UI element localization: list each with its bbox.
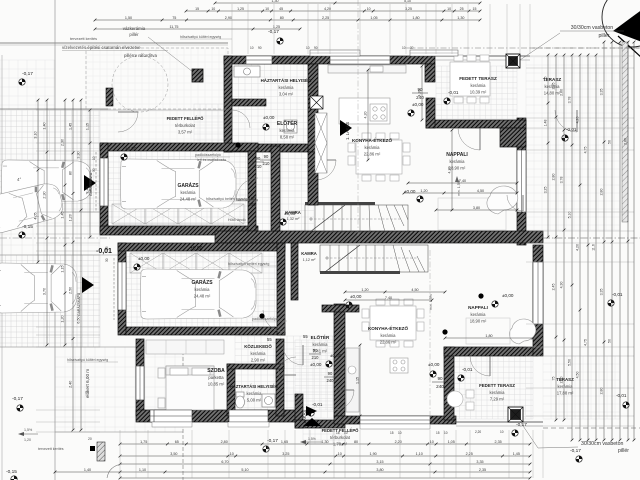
wall living A east: [517, 118, 526, 245]
garden vertical dashed: [182, 345, 184, 480]
door size 90/240 A: [412, 87, 428, 100]
svg-text:GARÁZSKAPU: GARÁZSKAPU: [77, 292, 81, 316]
survey point top: [277, 38, 283, 44]
dim terrace B width: [444, 334, 535, 340]
svg-text:FEDETT TERASZ: FEDETT TERASZ: [459, 76, 497, 81]
svg-text:25: 25: [460, 7, 464, 11]
room label terrace A: [543, 77, 562, 96]
svg-text:-0,17: -0,17: [267, 438, 278, 444]
room label garage A: [177, 182, 199, 202]
svg-text:-0,17: -0,17: [12, 396, 23, 402]
svg-text:55: 55: [267, 337, 272, 342]
svg-text:1,80: 1,80: [412, 16, 419, 20]
dim chain right col2: [552, 54, 558, 422]
survey point left mid: [19, 232, 25, 238]
svg-text:kerámia: kerámia: [471, 312, 487, 317]
svg-text:kerámia: kerámia: [181, 190, 197, 195]
svg-text:4,50: 4,50: [411, 288, 418, 292]
wall utility B north: [227, 364, 284, 369]
svg-text:15: 15: [390, 431, 394, 435]
svg-text:8,58 m²: 8,58 m²: [280, 135, 295, 140]
svg-text:GARÁZSKAPU: GARÁZSKAPU: [89, 172, 93, 196]
door size 90/210 entry A: [252, 156, 264, 169]
svg-text:90: 90: [264, 154, 269, 159]
svg-text:1,05: 1,05: [448, 440, 455, 444]
room label living A: [446, 152, 468, 171]
svg-text:10: 10: [265, 7, 269, 11]
dim chain top row4: [94, 25, 302, 31]
room label covered step A: [167, 116, 205, 135]
svg-text:3,35: 3,35: [600, 89, 604, 96]
driveway curve bottom: [107, 464, 122, 478]
dim chain left col4: [69, 99, 75, 432]
svg-text:3,80: 3,80: [473, 206, 480, 210]
dim chain left col6: [86, 109, 92, 239]
party wall: [215, 231, 543, 243]
svg-text:2,80: 2,80: [552, 174, 556, 181]
svg-text:KÖZLEKEDŐ: KÖZLEKEDŐ: [244, 344, 272, 349]
svg-text:±0,00: ±0,00: [502, 293, 514, 298]
svg-text:3,57 m²: 3,57 m²: [178, 130, 193, 135]
svg-text:1,20: 1,20: [361, 288, 368, 292]
stairs unit B: [320, 245, 428, 274]
dim chain right col9: [608, 41, 614, 442]
room label corridor B: [244, 344, 272, 363]
garage door plane B: [113, 258, 115, 320]
svg-text:4,50: 4,50: [576, 372, 580, 379]
axis vertical kitchen A: [357, 0, 359, 237]
window sill A1: [310, 50, 360, 56]
dim chain right col11: [624, 41, 630, 442]
room label bedroom B: [207, 368, 225, 387]
svg-text:±0,00: ±0,00: [284, 211, 296, 216]
svg-text:előkert 6,00 m: előkert 6,00 m: [85, 369, 90, 398]
svg-text:10: 10: [211, 7, 215, 11]
svg-text:NAPPALI: NAPPALI: [446, 152, 468, 158]
window bedroom west: [136, 366, 144, 400]
survey point terrace A2: [444, 98, 450, 104]
svg-text:1,30: 1,30: [272, 0, 279, 3]
garage A entry arrow: [84, 175, 96, 191]
stove island A: [339, 98, 390, 124]
note hoszivattyu beltari A: [206, 197, 258, 201]
svg-text:ELŐTÉR: ELŐTÉR: [277, 119, 298, 127]
svg-text:HÁZTARTÁSI HELYISÉG: HÁZTARTÁSI HELYISÉG: [230, 384, 278, 389]
site line left edge: [1, 55, 3, 480]
svg-text:90: 90: [314, 46, 318, 50]
svg-text:2,25: 2,25: [322, 16, 329, 20]
extension lines bottom: [120, 430, 543, 478]
svg-text:75: 75: [172, 16, 176, 20]
svg-text:45: 45: [279, 7, 283, 11]
note padloosszefolyo B: [252, 317, 287, 321]
entry B step arrow: [303, 406, 321, 426]
survey point mid right: [492, 301, 498, 307]
svg-text:2,25: 2,25: [466, 452, 473, 456]
survey point bottom right: [512, 430, 518, 436]
svg-text:3,25: 3,25: [282, 452, 289, 456]
svg-text:KAMRA: KAMRA: [301, 251, 317, 256]
door niche living A: [507, 195, 523, 211]
garage B entry arrow: [82, 277, 94, 293]
svg-text:30: 30: [105, 258, 109, 262]
svg-text:75: 75: [552, 377, 556, 381]
pavement edge to building: [100, 109, 228, 111]
svg-text:15: 15: [105, 246, 109, 250]
dining table B: [362, 299, 424, 347]
axis vertical living B: [429, 250, 431, 420]
svg-text:2,80: 2,80: [560, 377, 564, 384]
black dot garage B: [259, 313, 264, 318]
svg-text:10: 10: [402, 46, 406, 50]
wardrobe bedroom: [146, 340, 224, 354]
dim kitchen B width: [344, 296, 434, 302]
svg-text:90: 90: [258, 46, 262, 50]
svg-text:15: 15: [336, 431, 340, 435]
svg-text:4°: 4°: [17, 177, 22, 182]
wall entry B west: [295, 394, 303, 428]
window sill S2: [228, 422, 269, 427]
door living B to terrace: [470, 356, 490, 376]
svg-text:±0,00: ±0,00: [263, 115, 275, 120]
svg-text:22,86 m²: 22,86 m²: [364, 152, 381, 157]
svg-text:hőszivattyú kültéri egység: hőszivattyú kültéri egység: [67, 358, 108, 362]
svg-text:padlóösszefolyó: padlóösszefolyó: [195, 153, 221, 157]
svg-text:-0,17: -0,17: [570, 448, 581, 454]
survey point garage B: [134, 264, 140, 270]
pantry label B: [301, 251, 317, 262]
svg-text:2,90 m²: 2,90 m²: [251, 358, 266, 363]
svg-text:4,20: 4,20: [364, 112, 368, 119]
svg-text:3,40: 3,40: [86, 186, 90, 193]
note hoszivattyu kulteri B: [67, 358, 118, 362]
dim kitchen A height2: [364, 69, 370, 162]
garage A vehicle door opening: [100, 158, 108, 206]
door carport: [118, 112, 138, 132]
svg-text:térburkolat: térburkolat: [330, 435, 351, 440]
dim chain top row3: [94, 16, 482, 22]
svg-text:10: 10: [398, 431, 402, 435]
garage door plane A: [95, 152, 97, 212]
axis line top terrace: [406, 47, 640, 49]
svg-text:10: 10: [250, 46, 254, 50]
svg-text:-0,15: -0,15: [22, 224, 33, 230]
svg-text:kerámia: kerámia: [558, 384, 574, 389]
terrace east edge wall: [622, 42, 628, 222]
door foyer A to kitchen: [316, 160, 336, 180]
svg-text:1,90: 1,90: [370, 452, 377, 456]
door terrace A side: [555, 110, 577, 132]
door size 90/240 living B: [324, 371, 336, 383]
terrace B tiles: [543, 356, 620, 419]
svg-text:vízelvezetés építési csatornán: vízelvezetés építési csatornán elvezetve: [62, 45, 141, 50]
door foyer B to kitchen: [334, 390, 354, 410]
svg-text:ELŐTÉR: ELŐTÉR: [311, 333, 330, 340]
svg-text:1,40: 1,40: [43, 122, 47, 129]
svg-text:90: 90: [437, 376, 443, 381]
note vazkeramia piller: [123, 26, 193, 72]
utility A washer: [284, 120, 297, 133]
svg-text:1,20: 1,20: [69, 214, 73, 221]
wall bedroom west: [136, 339, 144, 416]
svg-text:80: 80: [354, 440, 358, 444]
note hoszivattyu beltari B: [228, 262, 280, 266]
svg-text:90: 90: [328, 371, 333, 376]
survey point living B east: [608, 300, 614, 306]
tiny dims below south wall: [336, 430, 504, 435]
dim chain right col7: [592, 54, 598, 442]
fence line top: [0, 43, 228, 45]
dim chain right col1: [544, 54, 550, 239]
svg-text:1,5%: 1,5%: [308, 437, 316, 441]
pillar vazkeramia: [192, 69, 203, 82]
svg-text:2,80: 2,80: [624, 138, 628, 145]
black dot B: [442, 329, 447, 334]
svg-text:30: 30: [92, 168, 96, 172]
terrace A north dashed cont: [530, 47, 640, 49]
terrace B south dashed edge: [543, 427, 640, 429]
svg-text:kerámia: kerámia: [490, 390, 506, 395]
wall terrace B north: [444, 347, 538, 356]
svg-text:1,45: 1,45: [513, 452, 520, 456]
svg-text:55: 55: [303, 334, 308, 339]
garage B vehicle door opening: [118, 262, 126, 310]
wall garage A west: [100, 143, 108, 234]
svg-text:1,12 m²: 1,12 m²: [303, 258, 317, 262]
svg-text:kerámia: kerámia: [471, 83, 487, 88]
svg-text:5,10: 5,10: [404, 0, 411, 3]
dim chain right col10: [619, 41, 622, 442]
dim kitchen B height: [356, 344, 362, 418]
svg-text:NAPPALI: NAPPALI: [468, 305, 488, 310]
wall foyer A west: [271, 146, 280, 231]
svg-text:5,10: 5,10: [241, 468, 248, 472]
room label terrace B: [556, 377, 574, 396]
svg-text:3,35: 3,35: [476, 460, 483, 464]
carport dashed circle: [112, 56, 168, 112]
svg-text:±0,00: ±0,00: [330, 353, 342, 358]
wall kitchen B west: [334, 304, 345, 416]
terrace A tiles: [526, 57, 620, 230]
svg-text:pillér: pillér: [129, 32, 139, 37]
svg-text:2,35: 2,35: [479, 468, 486, 472]
svg-text:kerámia: kerámia: [247, 391, 263, 396]
wall utility B east: [276, 339, 284, 416]
dim chain bottom row2: [119, 452, 532, 458]
wall garage B east: [277, 243, 285, 335]
wall utility B west: [227, 364, 235, 416]
svg-text:±0,00: ±0,00: [125, 146, 137, 151]
dim chain right col3: [560, 54, 566, 422]
svg-text:lejt és csatlakozás: lejt és csatlakozás: [197, 158, 226, 162]
entry A step arrow: [340, 120, 352, 136]
svg-text:65: 65: [175, 440, 179, 444]
svg-text:kerámia: kerámia: [280, 128, 296, 133]
svg-text:2,80: 2,80: [600, 189, 604, 196]
svg-text:kerámia: kerámia: [279, 85, 295, 90]
svg-text:1,05: 1,05: [370, 16, 377, 20]
svg-text:HÁZTARTÁSI HELYISÉG: HÁZTARTÁSI HELYISÉG: [261, 78, 312, 83]
svg-text:80: 80: [69, 171, 73, 175]
svg-text:17,88 m²: 17,88 m²: [557, 391, 574, 396]
svg-text:7,29 m²: 7,29 m²: [490, 397, 505, 402]
slope label left: [18, 428, 38, 436]
svg-text:1,50: 1,50: [125, 16, 132, 20]
corridor/utility B floor tiles: [235, 336, 335, 410]
svg-text:30/30cm vasbeton: 30/30cm vasbeton: [581, 441, 624, 447]
terrace B south edge: [456, 422, 543, 426]
chimney: [310, 96, 323, 109]
svg-text:1,30: 1,30: [457, 16, 464, 20]
svg-text:2,50: 2,50: [69, 287, 73, 294]
covered step B tiles: [303, 422, 345, 444]
svg-text:2,35: 2,35: [495, 440, 502, 444]
svg-text:1,30: 1,30: [321, 440, 328, 444]
svg-text:10: 10: [430, 440, 434, 444]
north symbol: [596, 0, 640, 58]
svg-text:11,75: 11,75: [170, 25, 179, 29]
room label foyer A: [277, 119, 298, 140]
dim chain right col8: [600, 41, 606, 442]
room label garage B: [191, 279, 213, 299]
dim living A width2: [403, 189, 519, 195]
svg-text:parketta: parketta: [208, 375, 224, 380]
svg-text:1,15: 1,15: [356, 377, 360, 384]
stove B: [390, 358, 408, 373]
svg-text:210: 210: [255, 164, 263, 169]
dim chain right col12: [633, 41, 636, 442]
svg-text:-0,01: -0,01: [448, 90, 459, 95]
window kitchen A north: [330, 56, 390, 64]
svg-text:±0,00: ±0,00: [138, 256, 150, 261]
svg-text:1,20: 1,20: [61, 315, 65, 322]
door garage B to corridor: [263, 310, 285, 332]
dim chain right col5: [576, 54, 582, 442]
svg-text:15: 15: [473, 7, 477, 11]
door bedroom B: [278, 357, 296, 375]
svg-text:1,15: 1,15: [86, 123, 90, 130]
room label utility B: [230, 384, 278, 403]
svg-text:tervezett kerítés: tervezett kerítés: [70, 37, 97, 41]
svg-text:15: 15: [436, 431, 440, 435]
svg-text:-0,01: -0,01: [566, 127, 577, 132]
survey point terrace B: [458, 375, 464, 381]
door size corridor B: [309, 348, 321, 360]
wall garage B south: [126, 327, 285, 335]
svg-text:90: 90: [417, 87, 423, 92]
wall stair B west: [291, 243, 298, 300]
svg-text:3,15: 3,15: [376, 460, 383, 464]
svg-text:1,45: 1,45: [61, 211, 65, 218]
survey point terrace B entry: [430, 371, 436, 377]
terrace chair B: [447, 390, 474, 410]
svg-text:hőszivattyú beltéri egység: hőszivattyú beltéri egység: [228, 262, 269, 266]
survey point bottom-left: [17, 405, 23, 411]
black dot A: [235, 142, 240, 147]
junction dot bottom-left: [90, 446, 95, 451]
extension lines right: [526, 56, 634, 426]
pavement lower-left driveway: [0, 255, 100, 347]
survey point bottom: [263, 446, 269, 452]
note vasbeton piller bottom: [517, 417, 629, 454]
pavement lower-left yard: [55, 347, 183, 432]
svg-text:5,00 m²: 5,00 m²: [247, 398, 262, 403]
wall living B east: [533, 245, 543, 356]
wall garage B west: [118, 243, 126, 335]
svg-text:10: 10: [500, 430, 504, 434]
svg-text:10: 10: [344, 431, 348, 435]
svg-text:50: 50: [608, 339, 612, 343]
wall garage A south: [100, 226, 258, 235]
svg-text:50: 50: [608, 140, 612, 144]
svg-text:10: 10: [230, 452, 234, 456]
wall stub terrace A: [426, 98, 435, 128]
svg-text:80: 80: [280, 16, 284, 20]
svg-text:-0,15: -0,15: [6, 469, 17, 475]
wall garage A north: [100, 143, 258, 151]
window sill A2: [410, 50, 458, 56]
pavement upper-left driveway: [0, 110, 100, 212]
svg-text:3,78: 3,78: [568, 97, 572, 104]
svg-text:240: 240: [249, 202, 257, 207]
wall garage B north: [118, 243, 285, 251]
wall south west-part: [136, 410, 296, 422]
wall stub foyer B: [322, 305, 359, 312]
svg-text:GARÁZS: GARÁZS: [177, 182, 199, 189]
svg-text:10,39 m²: 10,39 m²: [470, 90, 487, 95]
utility B washer: [262, 394, 275, 407]
car in garage B: [141, 269, 257, 319]
svg-text:3,04 m²: 3,04 m²: [279, 92, 294, 97]
svg-text:30/30cm vasbeton: 30/30cm vasbeton: [571, 25, 614, 31]
tiny dims left of west wall: [92, 156, 109, 262]
svg-text:5,50: 5,50: [568, 359, 572, 366]
dim chain bottom row1: [119, 440, 532, 446]
svg-text:18,90 m²: 18,90 m²: [470, 319, 487, 324]
svg-text:3,70: 3,70: [43, 288, 47, 295]
window utility A north: [246, 56, 272, 64]
svg-text:1,20: 1,20: [24, 438, 31, 442]
storage boxes garage A: [112, 204, 244, 224]
svg-text:1,25: 1,25: [237, 7, 244, 11]
svg-text:3,50: 3,50: [170, 452, 177, 456]
pavement top-left: [0, 60, 55, 110]
svg-text:2,80: 2,80: [600, 388, 604, 395]
room label kitchen B: [368, 324, 408, 345]
svg-text:SZOBA: SZOBA: [207, 368, 225, 374]
svg-text:210: 210: [312, 355, 320, 360]
survey point kitchen B: [326, 361, 332, 367]
svg-text:kerámia: kerámia: [313, 342, 329, 347]
window utility B south: [229, 410, 268, 422]
note vizelvezetes: [62, 45, 168, 58]
svg-text:2,20: 2,20: [475, 430, 481, 434]
svg-text:14,80 m²: 14,80 m²: [544, 91, 561, 96]
svg-text:10: 10: [92, 156, 96, 160]
dim living B width: [344, 288, 447, 294]
wall entry B south: [295, 420, 345, 428]
svg-text:100: 100: [249, 196, 257, 201]
dim living A width: [407, 179, 519, 185]
carport dashed box: [86, 48, 228, 109]
svg-text:±0,00: ±0,00: [190, 246, 203, 252]
pavement between driveways: [0, 212, 100, 255]
svg-text:4,05: 4,05: [34, 212, 38, 219]
dim kitchen A height: [418, 65, 424, 122]
shaft X-strip kitchen A: [315, 113, 327, 173]
svg-text:4,30: 4,30: [560, 282, 564, 289]
svg-text:10: 10: [447, 7, 451, 11]
